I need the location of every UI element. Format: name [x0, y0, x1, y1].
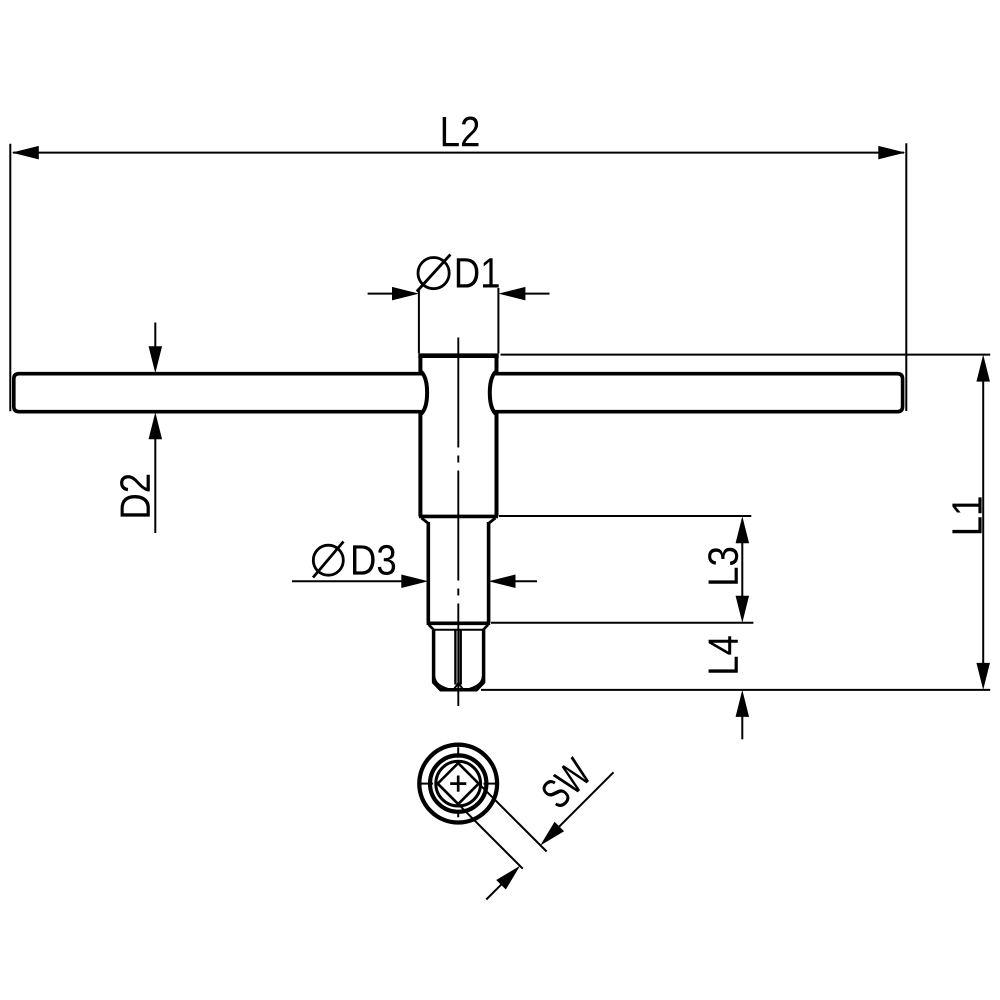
D3 right side	[487, 522, 491, 623]
SW extension line lower	[460, 806, 523, 869]
square tip outline	[434, 629, 484, 690]
end view center cross	[450, 782, 466, 785]
vertical axis centerline	[457, 338, 459, 707]
diameter symbol for D3	[313, 545, 343, 575]
L2 label	[443, 117, 479, 147]
tip right face bottom arc	[469, 677, 483, 690]
extension line at boss bottom right	[499, 515, 751, 517]
L4 label	[709, 636, 738, 673]
dimension L2 line	[13, 152, 904, 154]
L2 left extension line	[9, 144, 11, 412]
L1 bottom arrow	[976, 663, 990, 690]
L1 top arrow	[976, 355, 990, 382]
diameter symbol for D1	[418, 258, 449, 289]
square tip corner edge left	[454, 631, 456, 685]
dimension L4 lower line	[741, 716, 743, 739]
D1 right arrow	[498, 287, 525, 301]
SW lower arrow	[496, 866, 520, 890]
tip left face bottom arc	[434, 677, 448, 690]
end view outer circle D1	[419, 745, 497, 823]
dimension L1 line	[982, 381, 984, 664]
D3 left arrow	[401, 574, 428, 588]
SW upper arrow	[540, 822, 564, 846]
dimension D2 upper line	[154, 323, 156, 348]
SW label	[539, 756, 594, 811]
D1 label	[457, 258, 499, 287]
L1 label	[952, 497, 981, 533]
square tip corner edge right	[460, 631, 462, 685]
right chamfer boss to D3	[489, 518, 496, 524]
D2 lower line	[154, 438, 156, 533]
L2 right arrow	[878, 146, 905, 160]
D2 label	[120, 475, 150, 517]
D3 left side	[426, 522, 430, 623]
boss right side with fillet	[490, 356, 497, 517]
end view centerline ticks	[421, 783, 433, 785]
L2 right extension line	[905, 143, 907, 411]
extension line at D3 bottom right	[491, 622, 753, 624]
dimension D3 left tail line	[292, 580, 402, 582]
boss top edge	[418, 353, 498, 358]
D3 right tail line	[515, 580, 538, 582]
boss left side with fillet	[420, 356, 427, 517]
left chamfer boss to D3	[422, 518, 429, 524]
handle bar right part	[494, 374, 902, 412]
D1 right tail line	[524, 293, 549, 295]
end view square drive diamond	[438, 763, 479, 804]
SW extension line upper	[480, 785, 546, 851]
extension line at tip bottom right	[481, 689, 990, 691]
tip chamfer edge line	[435, 629, 483, 631]
L3 top arrow	[736, 516, 750, 543]
tip bottom V notch	[454, 683, 462, 688]
SW dimension lower tail	[486, 884, 502, 900]
dimension D1 right extension line	[497, 288, 499, 353]
shoulder at boss bottom	[419, 515, 498, 519]
D2 upper arrow	[149, 346, 163, 373]
dimension D1 left extension line	[418, 288, 420, 353]
end view inner circle	[436, 761, 481, 806]
D3 label	[353, 545, 395, 575]
L3 label	[708, 548, 738, 584]
D1 left tail line	[368, 293, 394, 295]
extension line at boss top right	[501, 354, 991, 356]
handle bar left part	[14, 374, 423, 412]
L2 left arrow	[12, 146, 39, 160]
D1 left arrow	[392, 287, 419, 301]
L3 bottom arrow	[736, 596, 750, 623]
L4 arrow	[736, 690, 750, 717]
D3 right arrow	[489, 574, 516, 588]
dimension L3 line	[741, 542, 743, 597]
left chamfer D3 to tip	[429, 625, 435, 631]
end view middle circle D3	[430, 755, 486, 811]
shoulder at D3 bottom	[427, 621, 491, 625]
right chamfer D3 to tip	[483, 625, 488, 631]
SW dimension upper tail	[559, 772, 614, 827]
D2 lower arrow	[149, 412, 163, 439]
